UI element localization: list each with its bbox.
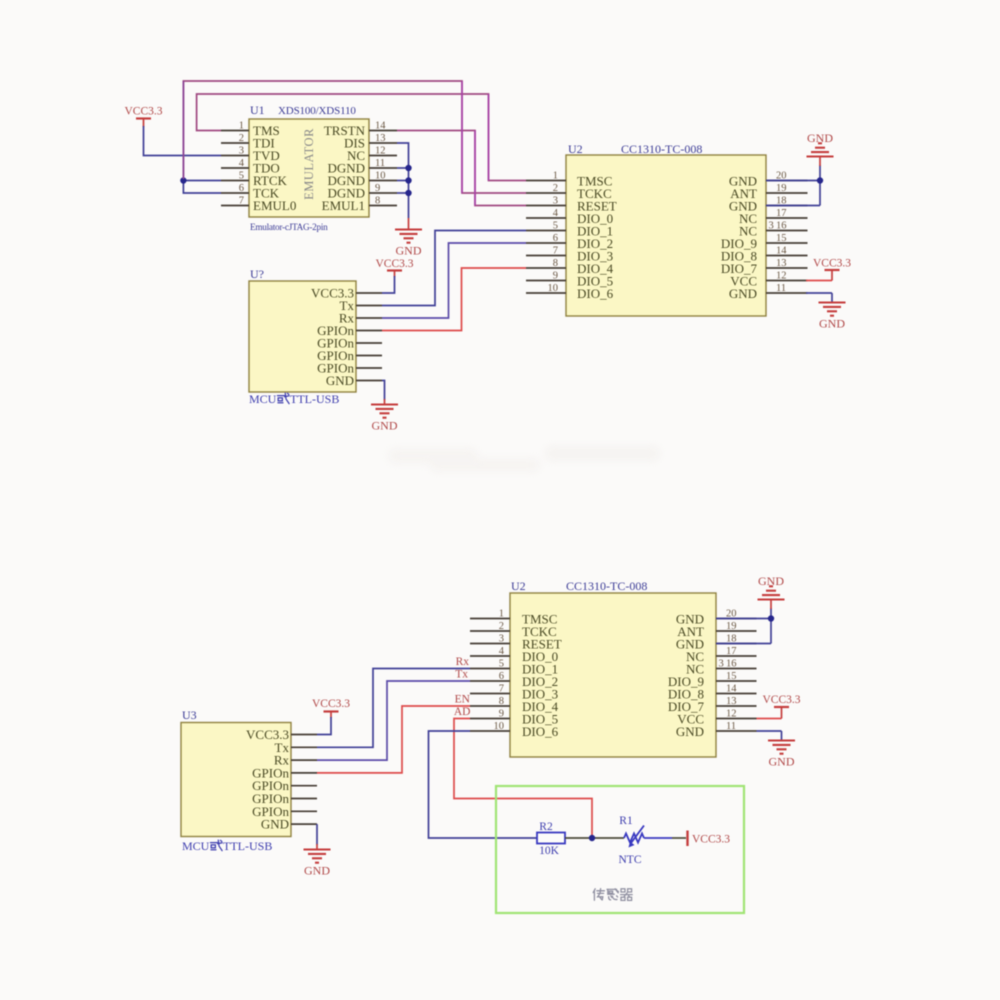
wire RTCK branch: [183, 180, 221, 182]
U2bot pin 4 DIO_0: [470, 655, 510, 657]
U2bot pin 8 DIO_4: [470, 705, 510, 707]
svg-text:13: 13: [375, 133, 386, 144]
svg-text:13: 13: [776, 258, 787, 269]
U1 pin 13 DIS: [369, 142, 397, 144]
svg-text:VCC3.3: VCC3.3: [124, 106, 162, 118]
U? pin Tx: [356, 305, 382, 307]
U1 pin 2 TDI: [221, 142, 249, 144]
svg-text:GND: GND: [769, 755, 795, 769]
U? pin GPIOn: [356, 355, 382, 357]
U2top pin 16 NC: [766, 230, 808, 232]
svg-text:10: 10: [375, 171, 386, 182]
svg-text:14: 14: [726, 684, 737, 695]
svg-text:9: 9: [553, 271, 558, 282]
svg-text:VCC3.3: VCC3.3: [762, 694, 800, 706]
U2top pin 8 DIO_4: [526, 267, 566, 269]
svg-text:U2: U2: [511, 579, 526, 593]
svg-text:EMULATOR: EMULATOR: [302, 128, 316, 200]
U2bot pin 10 DIO_6: [470, 730, 510, 732]
U2bot pin 20 GND: [716, 618, 757, 620]
svg-text:15: 15: [776, 233, 787, 244]
node junction RTCK/TCK: [180, 177, 186, 183]
svg-text:XDS100/XDS110: XDS100/XDS110: [278, 105, 356, 117]
faint watermark smudge: [388, 446, 660, 472]
svg-text:EMUL0: EMUL0: [253, 198, 296, 213]
svg-text:14: 14: [776, 246, 787, 257]
U1 pin 1 TMS: [221, 130, 249, 132]
ground GND (top-right, inverted): [807, 143, 834, 156]
svg-text:TTL-USB: TTL-USB: [223, 839, 272, 853]
svg-text:NTC: NTC: [619, 854, 642, 866]
svg-text:1: 1: [239, 121, 244, 132]
U2top pin 15 DIO_9: [766, 242, 808, 244]
U2top pin 12 VCC: [766, 280, 808, 282]
U2bot pin 12 VCC: [716, 718, 757, 720]
svg-text:3: 3: [719, 659, 724, 670]
U2top pin 7 DIO_3: [526, 255, 566, 257]
U2top pin 6 DIO_2: [526, 242, 566, 244]
svg-text:R2: R2: [539, 821, 553, 833]
U3 pin GPIOn: [291, 810, 317, 812]
U2bot pin 17 NC: [716, 655, 757, 657]
svg-text:5: 5: [553, 221, 558, 232]
svg-text:GND: GND: [261, 817, 289, 832]
wire net TMS: U1 pin1 to U2 pin1 TMSC: [197, 94, 526, 181]
svg-text:8: 8: [553, 258, 558, 269]
svg-text:13: 13: [726, 696, 737, 707]
U3 pin GPIOn: [291, 798, 317, 800]
svg-text:16: 16: [776, 221, 787, 232]
svg-text:3: 3: [553, 196, 558, 207]
U2bot pin 3 RESET: [470, 643, 510, 645]
svg-text:6: 6: [499, 671, 504, 682]
op-amp U1 XDS100/XDS110 emulator block body: [249, 119, 369, 217]
wire net TCK: U1 pin6/RTCK to U2 pin2 TCKC: [183, 181, 221, 194]
U2bot pin 5 DIO_1: [470, 668, 510, 670]
svg-text:R1: R1: [619, 815, 633, 827]
U1 pin 9 DGND: [369, 192, 397, 194]
R1 NTC arrow: [631, 826, 644, 844]
U2bot pin 15 DIO_9: [716, 680, 757, 682]
ground GND (below U2top pin11): [819, 303, 846, 316]
svg-text:GND: GND: [807, 131, 833, 145]
U2bot pin 1 TMSC: [470, 618, 510, 620]
svg-text:5: 5: [499, 659, 504, 670]
wire net DGND: U1 pin13 DIS + DGND pins to GND: [397, 143, 409, 218]
svg-text:U2: U2: [568, 142, 583, 156]
U2bot pin 13 DIO_7: [716, 705, 757, 707]
svg-text:10: 10: [494, 721, 505, 732]
sensor label (chinese): [593, 889, 632, 901]
U3 pin GND: [291, 823, 317, 825]
power VCC3.3 (right of U2bot pin12): [757, 718, 782, 720]
power VCC3.3 (above U3): [324, 710, 339, 712]
U2bot pin 6 DIO_2: [470, 680, 510, 682]
U1 pin 14 TRSTN: [369, 130, 397, 132]
wire R1 to VCC3.3: [644, 837, 672, 839]
svg-text:3: 3: [499, 634, 504, 645]
U2top pin 20 GND: [766, 180, 808, 182]
U2top pin 2 TCKC: [526, 192, 566, 194]
svg-text:VCC3.3: VCC3.3: [692, 834, 730, 846]
svg-text:3: 3: [239, 146, 244, 157]
wire R2 to junction: [565, 837, 624, 839]
svg-text:4: 4: [553, 208, 559, 219]
wire rail vertical tint (left TCK riser): [182, 81, 184, 179]
U? pin GPIOn: [356, 342, 382, 344]
svg-text:MCU: MCU: [182, 839, 210, 853]
svg-text:19: 19: [726, 621, 737, 632]
svg-text:GND: GND: [396, 244, 422, 258]
svg-text:U3: U3: [182, 708, 197, 722]
U3 pin VCC3.3: [291, 734, 317, 736]
svg-text:GND: GND: [372, 419, 398, 433]
svg-text:9: 9: [499, 709, 504, 720]
wire VCC3.3 to U3 pin: [330, 712, 332, 719]
U3 pin Rx: [291, 759, 317, 761]
node junction DGND pin10: [405, 177, 411, 183]
svg-text:VCC3.3: VCC3.3: [312, 698, 350, 710]
node junction DGND pin11: [405, 165, 411, 171]
svg-text:5: 5: [239, 171, 244, 182]
U2top pin 4 DIO_0: [526, 217, 566, 219]
svg-text:MCU: MCU: [249, 392, 277, 406]
U1 pin 7 EMUL0: [221, 205, 249, 207]
wire U3 GND pin down: [316, 824, 318, 845]
node junction R2/R1/AD: [589, 835, 595, 841]
U2bot pin 18 GND: [716, 643, 757, 645]
svg-text:Emulator-cJTAG-2pin: Emulator-cJTAG-2pin: [250, 222, 328, 232]
svg-text:1: 1: [553, 171, 558, 182]
wire net AD: U2bot pin9 DIO_5 to sensor divider (red): [454, 719, 592, 839]
resistor R1 NTC zigzag: [624, 834, 644, 843]
wire net GPIO: U? GPIOn to U2 pin8 DIO_4 (red): [382, 268, 526, 331]
U2top pin 14 DIO_8: [766, 255, 808, 257]
svg-text:10: 10: [548, 283, 559, 294]
wire VCC3.3 to U? pin VCC3.3: [382, 276, 395, 293]
node junction U2bot pin20 GND: [768, 615, 774, 621]
U2top pin 13 DIO_7: [766, 267, 808, 269]
U1 pin 4 TDO: [221, 167, 249, 169]
U1 pin 10 DGND: [369, 180, 397, 182]
IC U2 CC1310-TC-008 (bottom) body: [510, 593, 716, 757]
U2bot pin 16 NC: [716, 668, 757, 670]
U3 pin GPIOn: [291, 772, 317, 774]
ground GND (below U1): [395, 230, 422, 243]
ground GND (below U3): [304, 850, 331, 863]
svg-text:12: 12: [726, 709, 737, 720]
svg-text:VCC3.3: VCC3.3: [813, 258, 851, 270]
U2bot pin 9 DIO_5: [470, 718, 510, 720]
svg-text:19: 19: [776, 183, 787, 194]
svg-text:TTL-USB: TTL-USB: [290, 392, 339, 406]
svg-text:EMUL1: EMUL1: [322, 198, 365, 213]
U2top pin 1 TMSC: [526, 180, 566, 182]
svg-text:17: 17: [776, 208, 787, 219]
sensor enclosure green box: [496, 786, 744, 913]
resistor R2 10K body: [537, 833, 565, 844]
svg-text:12: 12: [375, 146, 386, 157]
power VCC3.3 (above U?): [387, 269, 402, 271]
node junction pin20 GND: [817, 177, 823, 183]
svg-text:EN: EN: [455, 694, 471, 706]
svg-text:11: 11: [776, 283, 786, 294]
svg-text:14: 14: [375, 121, 386, 132]
U1 pin 11 DGND: [369, 167, 397, 169]
svg-text:1: 1: [499, 609, 504, 620]
power VCC3.3 (sensor, bar style): [686, 831, 688, 847]
svg-text:9: 9: [375, 183, 380, 194]
wire VCC3.3 to U1 pin3 TVD: [144, 126, 222, 156]
U2top pin 11 GND: [766, 292, 808, 294]
svg-text:Tx: Tx: [455, 669, 468, 681]
svg-text:2: 2: [499, 621, 504, 632]
U1 pin 8 EMUL1: [369, 205, 397, 207]
wire net EN: U3 GPIOn to U2bot pin8 DIO_4 (red): [317, 706, 470, 773]
svg-text:GND: GND: [819, 317, 845, 331]
svg-text:10K: 10K: [539, 845, 560, 857]
wire rail vertical tint (TRSTN net): [474, 131, 476, 206]
wire U? GND pin down: [382, 381, 385, 401]
svg-text:7: 7: [553, 246, 558, 257]
wire rail vertical tint (TCK net): [461, 81, 463, 193]
U2bot pin 2 TCKC: [470, 630, 510, 632]
U2top pin 18 GND: [766, 205, 808, 207]
U? pin GPIOn: [356, 367, 382, 369]
U3 pin Tx: [291, 746, 317, 748]
svg-text:3: 3: [769, 221, 774, 232]
wire net Tx: U? Tx to U2 pin5 DIO_1: [382, 231, 526, 306]
svg-text:GND: GND: [676, 724, 704, 739]
svg-text:17: 17: [726, 646, 737, 657]
svg-text:Rx: Rx: [456, 656, 470, 668]
node junction DGND pin9: [405, 190, 411, 196]
U2top pin 19 ANT: [766, 192, 808, 194]
svg-text:U?: U?: [250, 267, 264, 281]
wire net DIO_6: U2bot pin10 to R2 (blue): [429, 731, 538, 838]
svg-text:GND: GND: [729, 286, 757, 301]
IC U3 MCU/TTL-USB block body: [181, 723, 291, 837]
U2bot pin 11 GND: [716, 730, 757, 732]
svg-text:8: 8: [499, 696, 504, 707]
wire U2bot pin11 GND down: [757, 730, 782, 732]
U1 pin 3 TVD: [221, 155, 249, 157]
svg-text:7: 7: [499, 684, 504, 695]
ground GND (below U2bot pin11): [768, 741, 795, 754]
svg-text:8: 8: [375, 196, 380, 207]
power VCC3.3 (right of U2top pin12): [806, 280, 832, 282]
svg-text:CC1310-TC-008: CC1310-TC-008: [566, 579, 647, 593]
svg-text:4: 4: [499, 646, 505, 657]
U? pin Rx: [356, 317, 382, 319]
ground GND (below U?): [371, 405, 398, 418]
U? pin VCC3.3: [356, 292, 382, 294]
svg-text:11: 11: [726, 721, 736, 732]
U2top pin 5 DIO_1: [526, 230, 566, 232]
svg-text:12: 12: [776, 271, 787, 282]
wire net GND: U2top pin20/pin18 to GND symbol: [766, 180, 820, 182]
U1 pin 12 NC: [369, 155, 397, 157]
svg-text:7: 7: [239, 196, 244, 207]
svg-text:2: 2: [239, 133, 244, 144]
svg-text:16: 16: [726, 659, 737, 670]
U1 pin 5 RTCK: [221, 180, 249, 182]
svg-text:GND: GND: [758, 574, 784, 588]
U2bot pin 7 DIO_3: [470, 693, 510, 695]
svg-text:15: 15: [726, 671, 737, 682]
IC U? MCU/TTL-USB block body: [249, 281, 356, 392]
U2top pin 9 DIO_5: [526, 280, 566, 282]
svg-text:CC1310-TC-008: CC1310-TC-008: [621, 142, 702, 156]
wire net TRSTN: U1 pin14 to U2 pin3 RESET: [397, 131, 526, 206]
U2top pin 17 NC: [766, 217, 808, 219]
svg-text:2: 2: [553, 183, 558, 194]
U1 pin 6 TCK: [221, 192, 249, 194]
wire net Rx: U? Rx to U2 pin6 DIO_2: [382, 243, 526, 318]
U? pin GPIOn: [356, 330, 382, 332]
svg-text:6: 6: [239, 183, 244, 194]
IC U2 CC1310-TC-008 (top) body: [566, 155, 766, 316]
svg-text:DIO_6: DIO_6: [522, 724, 559, 739]
svg-text:DIO_6: DIO_6: [577, 286, 614, 301]
svg-text:U1: U1: [250, 103, 265, 117]
wire net Tx: U3 Rx to U2bot pin6 DIO_2: [317, 681, 470, 760]
svg-text:6: 6: [553, 233, 558, 244]
svg-text:GND: GND: [304, 864, 330, 878]
wire rail vertical tint (TMS net): [488, 94, 490, 181]
svg-text:GND: GND: [326, 373, 354, 388]
U2top pin 10 DIO_6: [526, 292, 566, 294]
ground GND (above U2bot, inverted): [758, 586, 785, 599]
svg-text:AD: AD: [454, 706, 471, 718]
U2top pin 3 RESET: [526, 205, 566, 207]
wire net GND: U2bot pin20/pin18 to GND symbol: [716, 618, 771, 620]
U2bot pin 14 DIO_8: [716, 693, 757, 695]
U3 pin GPIOn: [291, 785, 317, 787]
svg-text:11: 11: [375, 158, 385, 169]
U? pin GND: [356, 380, 382, 382]
wire U2top pin11 GND down: [806, 292, 832, 294]
svg-text:VCC3.3: VCC3.3: [375, 258, 413, 270]
U2bot pin 19 ANT: [716, 630, 757, 632]
svg-text:4: 4: [239, 158, 245, 169]
wire net Rx: U3 Tx to U2bot pin5 DIO_1: [317, 669, 470, 748]
